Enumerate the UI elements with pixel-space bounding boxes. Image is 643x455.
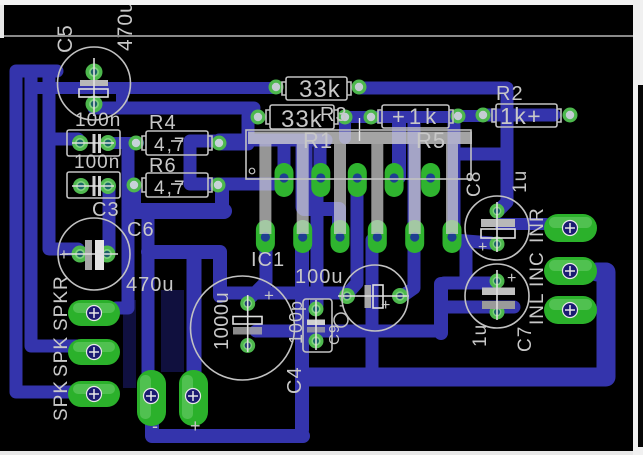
resistor +1k R5 pads bbox=[364, 109, 466, 125]
wire down to mid rail bbox=[434, 284, 448, 333]
resistor R2 right pad bbox=[563, 108, 578, 123]
svg-text:-: - bbox=[152, 416, 159, 436]
op-amp IC1 upper row pads pins 2,4,6,8,10 bbox=[275, 163, 441, 197]
wire +1k down to IC upper pad4 bbox=[392, 120, 406, 177]
pads bbox=[68, 64, 597, 427]
svg-text:R2: R2 bbox=[496, 83, 524, 105]
svg-text:4,7: 4,7 bbox=[154, 178, 186, 199]
svg-text:1u: 1u bbox=[510, 170, 531, 193]
svg-text:4,7: 4,7 bbox=[154, 135, 186, 156]
capacitor C1 outline bbox=[67, 130, 120, 156]
capacitor C6 circle bbox=[58, 218, 130, 290]
capacitor C1 plates bbox=[94, 134, 100, 153]
wire riser to IC upper pad1 bbox=[278, 142, 291, 172]
wire pad6 branch down bbox=[460, 243, 473, 282]
svg-text:1u: 1u bbox=[470, 324, 491, 347]
wire left rail 3 to C6 left pad bbox=[49, 74, 78, 249]
pad INC bbox=[544, 257, 597, 285]
capacitor C7 lead line bbox=[496, 270, 498, 320]
svg-text:1k+: 1k+ bbox=[500, 103, 542, 129]
frame left white stub bbox=[0, 5, 4, 38]
pad SPK middle bbox=[68, 339, 120, 365]
svg-text:100n: 100n bbox=[74, 152, 120, 173]
pad minus bbox=[137, 370, 166, 426]
svg-text:SPK: SPK bbox=[51, 336, 72, 377]
capacitor C6 lead line bbox=[62, 253, 118, 255]
capacitor C1 100n pads bbox=[72, 135, 116, 151]
wire C1 net down left of SPK pads bbox=[116, 147, 128, 308]
resistor R4 outline bbox=[142, 131, 212, 155]
pad plus bbox=[179, 370, 208, 426]
svg-text:R5: R5 bbox=[416, 128, 446, 153]
capacitor C2 outline bbox=[67, 172, 120, 198]
wire R6 band below bbox=[127, 187, 141, 208]
wire +1k right pad to spare pad bbox=[458, 110, 483, 122]
wire R6 right pad to IC upper pad1 bbox=[214, 178, 278, 191]
wire mid rail to INC pad bbox=[306, 272, 606, 377]
svg-text:R6: R6 bbox=[149, 155, 177, 177]
svg-text:SPKR: SPKR bbox=[51, 275, 72, 331]
svg-text:470u: 470u bbox=[126, 274, 175, 296]
wire 33k R1 right pad top rail to R2 and C8, INR bbox=[359, 88, 507, 212]
resistor +1k outline bbox=[378, 105, 453, 128]
capacitor C8 circle bbox=[465, 196, 529, 260]
resistor 33k R3 pads bbox=[251, 110, 353, 125]
capacitor C4 plate bar bbox=[233, 327, 262, 335]
wire branch to C1 left pad bbox=[49, 133, 78, 146]
capacitor C5 pads bbox=[86, 64, 103, 113]
svg-text:+: + bbox=[59, 245, 70, 264]
wire C5 bottom pad to 33k R3 left pad bbox=[94, 102, 254, 115]
svg-text:C6: C6 bbox=[127, 219, 155, 241]
svg-text:+: + bbox=[190, 416, 202, 436]
wire IC lower pad6 to C8 bottom pad bbox=[454, 240, 491, 243]
faint shadow columns bbox=[123, 290, 184, 388]
svg-text:INR: INR bbox=[527, 207, 548, 243]
op-amp IC1 heatsink tab bar bbox=[248, 132, 472, 145]
svg-text:INC: INC bbox=[527, 251, 548, 287]
wire R4 right pad to R6 right pad S-trace bbox=[190, 141, 219, 184]
IC1 pin1 marker bbox=[249, 168, 255, 174]
capacitor 100u circle bbox=[342, 265, 408, 331]
wire wide riser down between pads bbox=[296, 144, 313, 207]
wire IC lower pad1 down to C4 top pad bbox=[251, 240, 266, 297]
pad SPKR bbox=[68, 300, 120, 326]
op-amp IC1 lower row pads pins 1,3,5,7,9,11 bbox=[256, 220, 462, 253]
frame right white line bbox=[633, 0, 643, 455]
wire C2 right pad down to C6 right pad bbox=[103, 189, 116, 250]
silkscreen fills bbox=[62, 58, 515, 352]
svg-text:INL: INL bbox=[527, 292, 548, 325]
wire riser joining C5 nets bbox=[116, 90, 128, 106]
IC1 pin stubs lower row bbox=[259, 144, 458, 234]
svg-text:+: + bbox=[264, 286, 275, 305]
capacitor C4 plate outline bbox=[233, 317, 262, 325]
silkscreen outlines bbox=[58, 47, 562, 380]
wire V2 down to plus pad bbox=[187, 254, 202, 372]
capacitor 100u plate bar bbox=[365, 285, 372, 308]
capacitor C2 100n pads bbox=[73, 178, 116, 194]
pad INR bbox=[544, 214, 597, 242]
wire +1k right pad down to IC lower pad6 bbox=[448, 119, 461, 234]
pad SPK bottom bbox=[68, 381, 120, 407]
wire IC lower pad2 down to bottom rail bbox=[295, 240, 309, 430]
frame top white strip bbox=[0, 0, 643, 5]
wire left rail 1 to SPK pad3 bbox=[16, 71, 92, 392]
wire +1k body to right pad bbox=[371, 111, 458, 123]
svg-text:-: - bbox=[339, 297, 345, 314]
resistor 33k R3 outline bbox=[266, 105, 338, 129]
svg-text:100n: 100n bbox=[75, 110, 121, 131]
wire through C5 to 33k R1 left pad bbox=[33, 82, 276, 94]
resistor R4 pads bbox=[129, 136, 227, 151]
wire C4 top pad horizontal bbox=[222, 287, 348, 300]
capacitor C5 circle bbox=[58, 47, 131, 120]
svg-text:+1k: +1k bbox=[392, 104, 440, 129]
wire branch to V2 bbox=[148, 245, 220, 259]
strike over R4 value bbox=[171, 140, 183, 142]
wire bottom rail to minus pad bbox=[152, 400, 303, 436]
frame bottom white strip bbox=[0, 451, 643, 455]
svg-text:R4: R4 bbox=[149, 112, 177, 134]
capacitor C9 100p outline bbox=[303, 299, 332, 352]
wire C8 top pad to INR pad bbox=[500, 218, 546, 230]
svg-text:+: + bbox=[507, 270, 517, 287]
node line under R3 bbox=[359, 118, 361, 141]
capacitor C8 plate outline bbox=[481, 229, 515, 238]
svg-text:1000u: 1000u bbox=[211, 292, 233, 350]
wire 33k R3 right pad stub down bbox=[339, 118, 351, 138]
capacitor C7 plate bar bottom bbox=[482, 301, 515, 309]
svg-text:+: + bbox=[381, 297, 391, 314]
resistor R6 pads bbox=[127, 178, 226, 193]
spare pad node bbox=[476, 108, 491, 123]
resistor R2 outline bbox=[492, 104, 561, 127]
capacitor C4 1000u pads bbox=[240, 296, 255, 353]
wire behind C4 and 100p plates to C7 riser bbox=[256, 325, 441, 338]
resistor 33k R1 outline bbox=[282, 77, 351, 100]
wire riser to IC upper pad2 bbox=[314, 142, 327, 172]
capacitor C2 plates bbox=[94, 176, 100, 196]
wire R4 right pad up to 33k R3 left pad bbox=[221, 116, 254, 144]
capacitor C6 plate bar bbox=[85, 240, 92, 270]
capacitor 100u pads bbox=[339, 288, 408, 304]
svg-text:R3: R3 bbox=[320, 104, 348, 126]
capacitor C4 circle bbox=[191, 276, 295, 380]
wire +1k down through to lower pad5 and 100u right pad bbox=[404, 122, 414, 295]
wire V1 down to minus pad bbox=[142, 214, 155, 392]
svg-text:C9: C9 bbox=[326, 324, 343, 345]
capacitor C4 lead line bbox=[247, 295, 249, 352]
svg-text:C5: C5 bbox=[54, 24, 77, 53]
capacitor C9 lead line bbox=[315, 300, 317, 350]
strike over R6 value bbox=[171, 183, 183, 185]
capacitor 100u lead line bbox=[338, 295, 409, 297]
svg-text:33k: 33k bbox=[299, 76, 341, 103]
wire IC upper pad3 down to 100u left pad bbox=[349, 186, 357, 292]
wire R2 body fill bbox=[483, 109, 554, 122]
pad INL bbox=[544, 296, 597, 324]
wire left rail 2 to SPK pad2 bbox=[31, 74, 92, 346]
capacitor C7 plate bar top bbox=[482, 288, 515, 296]
capacitor C5 lead line bbox=[93, 58, 95, 116]
capacitor C8 lead line bbox=[496, 202, 498, 252]
svg-text:470u: 470u bbox=[114, 0, 137, 51]
capacitor C1 lead line bbox=[72, 142, 114, 144]
resistor R6 outline bbox=[142, 173, 212, 197]
wire jog to IC lower pad3 bbox=[304, 209, 339, 234]
capacitor C8 pads bbox=[490, 204, 505, 252]
svg-text:100u: 100u bbox=[295, 266, 344, 288]
wire under tab horizontal from R4 right pad bbox=[219, 134, 326, 147]
wire IC lower pad4 down to mid rail bbox=[366, 240, 379, 372]
via circle near 100u bbox=[334, 313, 348, 327]
capacitor C9 plates bbox=[307, 320, 325, 326]
wire horizontal to C7 top pad bbox=[444, 277, 492, 290]
capacitor C8 plate bar bbox=[481, 219, 515, 227]
op-amp IC1 outline bbox=[246, 130, 471, 179]
svg-text:+: + bbox=[478, 239, 488, 256]
svg-text:C7: C7 bbox=[515, 326, 536, 352]
frame horizontal gray line bbox=[4, 35, 633, 37]
wire C1 right pad to R4 left pad bbox=[106, 137, 138, 149]
capacitor 100u plate outline bbox=[373, 285, 383, 308]
svg-text:C3: C3 bbox=[92, 199, 120, 221]
capacitor C7 pads bbox=[490, 274, 505, 320]
svg-text:SPK: SPK bbox=[51, 380, 72, 421]
wire C7 bottom pad horizontal bbox=[446, 301, 514, 314]
svg-text:100p: 100p bbox=[286, 300, 306, 344]
resistor 33k R1 pads bbox=[269, 80, 367, 95]
svg-text:C8: C8 bbox=[464, 171, 485, 197]
capacitor C7 circle bbox=[465, 264, 529, 328]
capacitor C5 plate bar bbox=[80, 80, 108, 86]
capacitor C9 100p pads bbox=[309, 302, 324, 349]
svg-text:IC1: IC1 bbox=[251, 249, 285, 271]
svg-text:C4: C4 bbox=[284, 366, 306, 394]
capacitor C2 lead line bbox=[72, 185, 114, 187]
capacitor C6 plate white bbox=[95, 240, 104, 270]
wire IC upper pad2 down to 100p top pad bbox=[311, 186, 324, 305]
wire 33k R3 right pad to +1k left pad bbox=[345, 111, 371, 123]
wire under tab from R2 riser to pad6 riser bbox=[454, 148, 507, 161]
capacitor C5 plate outline bbox=[79, 89, 108, 97]
wire V3 down to C4 top horizontal bbox=[213, 253, 227, 296]
svg-text:R1: R1 bbox=[303, 128, 333, 153]
capacitor C6 pads bbox=[72, 246, 116, 263]
wire 100p top pad feeder bbox=[310, 294, 322, 305]
